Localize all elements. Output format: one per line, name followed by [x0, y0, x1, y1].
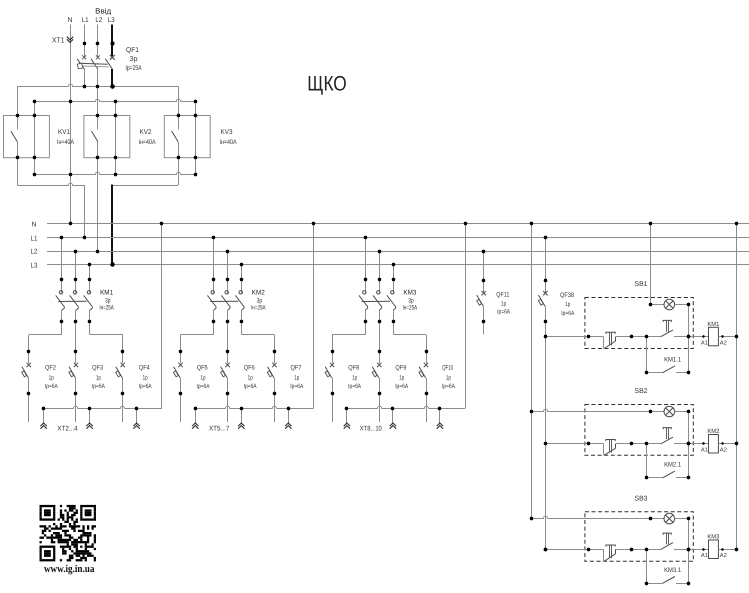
node SB3 feed: [544, 548, 547, 551]
node KM2 terminal stub 3: [287, 407, 290, 410]
node KM1 terminal stub 2: [88, 407, 91, 410]
wire SB1 between buttons: [616, 336, 661, 338]
label QF6: [244, 365, 255, 372]
label QF9 Ip=6A: [395, 383, 409, 390]
svg-text:N: N: [31, 221, 36, 228]
node QF6 top: [226, 350, 229, 353]
wire KM2 out1 to QF5: [181, 321, 214, 351]
label KM1.1: [664, 357, 681, 364]
wire SB2 right vertical: [688, 412, 690, 478]
node KM2 pole1 bottom: [212, 320, 215, 323]
label QF7: [291, 365, 302, 372]
svg-text:Iр=6А: Iр=6А: [290, 383, 304, 390]
label L2: [95, 17, 102, 24]
node pole2-header: [96, 85, 99, 88]
title ЩКО: [307, 72, 347, 95]
terminal chevron 1 of XТ8...10: [344, 423, 350, 429]
wire KM1 terminal stub 1: [43, 408, 45, 424]
label QF11 Ip=6A: [497, 308, 511, 315]
node QF2 top: [27, 350, 30, 353]
label Ввід (incoming feed): [95, 6, 112, 15]
label QF10: [442, 365, 453, 372]
breaker QF4: [116, 363, 125, 378]
node QF6 bottom: [226, 392, 229, 395]
label QF1: [126, 47, 139, 54]
wire KM1 terminal stub 2: [89, 408, 91, 424]
svg-text:KM2: KM2: [707, 428, 720, 435]
wire KM2 terminal stub 1: [195, 408, 197, 424]
node KM2 pole1 top: [212, 278, 215, 281]
wire coil KM3 return: [718, 549, 736, 551]
node QF38-L1: [544, 236, 547, 239]
breaker QF9: [372, 363, 381, 378]
node KM3 pole1 top: [364, 278, 367, 281]
svg-text:1р: 1р: [201, 375, 206, 382]
wire QF1 pole1 output: [84, 69, 86, 86]
contactor KM2 pole3 contact: [235, 282, 244, 320]
node SB3 line d: [687, 548, 690, 551]
wire KV1 right feed: [34, 102, 36, 116]
wire KM3 pole2 tap: [379, 251, 381, 280]
label QF6 1p: [248, 375, 253, 382]
node KM1 p2-L2: [74, 250, 77, 253]
node KV1R-header: [33, 100, 36, 103]
node SB2 line c: [645, 442, 648, 445]
wire QF3 lower: [75, 378, 77, 394]
wire QF5 output stub: [180, 394, 182, 422]
wire KV1 left feed: [17, 86, 19, 115]
node 174-KV1R: [33, 173, 36, 176]
svg-text:XT1: XT1: [52, 35, 65, 44]
wire KM3 terminal stub 3: [439, 408, 441, 424]
node QF4 bottom: [121, 392, 124, 395]
breaker QF11: [477, 291, 486, 306]
wire L1 drop to bus: [84, 185, 86, 238]
terminal chevron 2 of XТ5...7: [238, 423, 244, 429]
label QF2: [45, 365, 56, 372]
node KM3 pole2 top: [378, 278, 381, 281]
svg-text:А2: А2: [720, 552, 727, 559]
svg-text:QF3: QF3: [92, 365, 103, 372]
wire QF10 lower: [426, 378, 428, 394]
node SB1 line a: [587, 335, 590, 338]
wire KM1 out3 to QF4: [90, 321, 123, 351]
svg-text:1р: 1р: [248, 375, 253, 382]
node pole1-header: [83, 85, 86, 88]
node V1-N: [530, 222, 533, 225]
svg-text:KM3: KM3: [707, 534, 720, 541]
label QF38 Ip=6A: [561, 310, 575, 317]
label L3: [108, 17, 115, 24]
breaker QF1 (3-pole with tie bar): [77, 55, 115, 69]
node QF9 top: [378, 350, 381, 353]
wire SB3 lamp line: [532, 516, 664, 518]
terminal chevron 3 of XТ5...7: [285, 423, 291, 429]
svg-text:L1: L1: [31, 235, 38, 242]
svg-text:KV2: KV2: [140, 129, 152, 136]
wire KV2 right feed: [115, 102, 117, 116]
node KM1 p1-L1: [60, 236, 63, 239]
node L3 terminal: [111, 42, 115, 46]
svg-text:KV1: KV1: [58, 129, 70, 136]
label SB1: [635, 281, 648, 288]
contactor KM1 pole3 contact: [84, 282, 93, 320]
label SB2: [635, 388, 648, 395]
wire SB1 right vertical: [688, 305, 690, 373]
wire QF10 upper: [426, 351, 428, 363]
wire group KM1 neutral line: [44, 406, 162, 408]
svg-text:SB1: SB1: [635, 281, 648, 288]
node KM2.1 right mid: [687, 442, 690, 445]
svg-text:Iр=6А: Iр=6А: [348, 383, 362, 390]
svg-text:Iн=40А: Iн=40А: [220, 139, 237, 146]
node KM3 pole2 bottom: [378, 320, 381, 323]
wire SB2 lamp to right: [675, 411, 689, 413]
node SB1 line b: [630, 335, 633, 338]
wire KM1 out1 to QF2: [29, 321, 62, 351]
svg-text:L3: L3: [31, 262, 38, 269]
label KM3 3p: [408, 297, 414, 304]
node SB2 line b: [630, 442, 633, 445]
node SB2 lamp-V1: [530, 410, 533, 413]
svg-text:ЩКО: ЩКО: [307, 72, 347, 95]
wire KV3R drop: [195, 158, 197, 175]
wire KM3 pole3 tap: [393, 265, 395, 280]
terminal chevron 3 of XТ8...10: [437, 423, 443, 429]
node QF9 bottom: [378, 392, 381, 395]
label KM1 In=25A: [99, 304, 114, 311]
wire QF5 lower: [180, 378, 182, 394]
svg-text:KM2.1: KM2.1: [664, 462, 681, 469]
contactor KM1 tie bar: [58, 300, 86, 302]
node KM1.1 left: [645, 371, 648, 374]
svg-text:KV3: KV3: [221, 129, 233, 136]
svg-text:А2: А2: [720, 339, 727, 346]
wire KM1.1 left drop: [646, 337, 648, 373]
node QF10 top: [425, 350, 428, 353]
wire KV3L drop: [178, 158, 180, 185]
node KM3 terminal stub 3: [438, 407, 441, 410]
contact KM2.1 (self-hold): [646, 471, 689, 478]
node KM2 p3-L3: [240, 263, 243, 266]
breaker QF10: [419, 363, 428, 378]
button SB2 stop (NC): [604, 440, 616, 456]
wire KM2 out2 to QF6: [227, 321, 229, 351]
svg-text:1р: 1р: [565, 301, 570, 308]
node KM3 terminal stub 1: [345, 407, 348, 410]
node QF38 upper: [544, 279, 547, 282]
wire KM1 pole3 tap: [89, 265, 91, 280]
wire QF2 lower: [28, 378, 30, 394]
wire QF8 output stub: [332, 394, 334, 422]
svg-text:XТ2...4: XТ2...4: [57, 426, 78, 433]
wire N incoming vertical: [70, 25, 72, 224]
pin A2 of KM2: [720, 442, 727, 453]
node KV3R-header: [194, 100, 197, 103]
wire KM2 out3 to QF7: [242, 321, 275, 351]
node SB1 line d: [687, 335, 690, 338]
wire neutral lower header (y174.5): [35, 172, 196, 174]
node group KM2 riser-N: [312, 222, 315, 225]
wire KM3.1 left drop: [646, 549, 648, 583]
wire neutral header (y101.5): [35, 99, 196, 101]
svg-text:KM2: KM2: [252, 289, 265, 296]
node N-incoming-bus: [69, 222, 72, 225]
label KM2 In=25A: [251, 304, 266, 311]
label QF2 Ip=6A: [45, 383, 59, 390]
svg-text:QF9: QF9: [395, 365, 406, 372]
node KM1 return: [735, 335, 738, 338]
wire QF6 output stub: [227, 394, 229, 422]
wire L3 incoming (bold): [111, 25, 113, 57]
node KM3 pole1 bottom: [364, 320, 367, 323]
wire KM2 pole1 tap: [213, 238, 215, 280]
svg-text:QF6: QF6: [244, 365, 255, 372]
node return-N: [735, 222, 738, 225]
wire group KM3 neutral riser: [465, 224, 467, 408]
label QF5 1p: [201, 375, 206, 382]
node 174-N: [69, 173, 72, 176]
svg-text:QF38: QF38: [560, 292, 574, 299]
wire QF7 lower: [274, 378, 276, 394]
bus N: [31, 221, 749, 228]
node KM1 terminal stub 1: [42, 407, 45, 410]
button station SB3 (dashed box): [585, 512, 693, 562]
label QF4 Ip=6A: [139, 383, 153, 390]
label KM2: [252, 289, 265, 296]
label www.ig.in.ua: [44, 564, 95, 575]
svg-text:SB2: SB2: [635, 388, 648, 395]
pin A2 of KM1: [720, 335, 727, 346]
svg-text:Iр=6А: Iр=6А: [395, 383, 409, 390]
svg-text:L1: L1: [82, 17, 89, 24]
node L2 drop-bus: [96, 250, 99, 253]
wire coil KM1 lead: [693, 336, 708, 338]
svg-text:1р: 1р: [49, 375, 54, 382]
node group KM3 riser-N: [464, 222, 467, 225]
wire KM1 out2 to QF3: [75, 321, 77, 351]
wire KM1 pole2 tap: [75, 251, 77, 280]
wire QF11 lower: [483, 306, 485, 322]
svg-text:Iн=25А: Iн=25А: [403, 304, 418, 311]
wire QF1 pole3 output (bold): [111, 69, 113, 86]
bus L1: [31, 235, 749, 242]
wire SB3 button line in: [545, 549, 603, 551]
label QF4: [139, 365, 150, 372]
wire phase header (y86): [17, 84, 178, 86]
button SB1 stop (NC): [604, 332, 616, 348]
button SB3 start (NO): [661, 533, 673, 549]
label QF1 poles 3p: [130, 56, 138, 63]
node SB2 feed: [544, 442, 547, 445]
bus L3: [31, 262, 749, 269]
node KM2 p2-L2: [226, 250, 229, 253]
contactor KM3 tie bar: [362, 300, 390, 302]
wire group KM3 neutral line: [347, 406, 465, 408]
svg-text:QF11: QF11: [496, 291, 509, 298]
contactor KV1: [4, 114, 75, 159]
node KM3.1 right mid: [687, 548, 690, 551]
node KM3 p3-L3: [392, 263, 395, 266]
label QF2 1p: [49, 375, 54, 382]
node QF11-L2: [482, 250, 485, 253]
node QF7 top: [273, 350, 276, 353]
wire SB2 between buttons: [616, 443, 661, 445]
wire QF10 output stub: [426, 394, 428, 422]
contactor KM2 pole2 contact: [221, 282, 230, 320]
svg-text:N: N: [67, 17, 72, 24]
wire KM3 out1 to QF8: [332, 321, 365, 351]
node KM1 pole1 top: [60, 278, 63, 281]
lamp HL1: [664, 299, 675, 310]
node SB1 feed: [544, 335, 547, 338]
svg-text:QF7: QF7: [291, 365, 302, 372]
svg-text:L2: L2: [95, 17, 102, 24]
label KM2 3p: [257, 297, 263, 304]
wire QF6 upper: [227, 351, 229, 363]
lamp HL2: [664, 406, 675, 417]
svg-text:L2: L2: [31, 249, 38, 256]
node KM2 terminal stub 2: [240, 407, 243, 410]
node SB2 line d: [687, 442, 690, 445]
label XТ8...10: [360, 426, 382, 433]
wire KM2 pole3 tap: [241, 265, 243, 280]
svg-text:3р: 3р: [130, 56, 138, 63]
node QF11 upper: [482, 279, 485, 282]
svg-text:Ввід: Ввід: [95, 6, 112, 15]
pin A1 of KM2: [701, 442, 708, 453]
contactor KM3 pole1 contact: [359, 282, 368, 320]
svg-text:QF8: QF8: [348, 365, 359, 372]
svg-text:1р: 1р: [294, 375, 299, 382]
svg-text:Iр=6А: Iр=6А: [92, 383, 106, 390]
wire coil KM3 lead: [693, 549, 708, 551]
node KM3.1 left: [645, 582, 648, 585]
wire KV1L drop: [17, 158, 19, 185]
wire KM3 terminal stub 2: [392, 408, 394, 424]
wire KM3 out2 to QF9: [379, 321, 381, 351]
wire group KM2 neutral line: [195, 406, 313, 408]
node SB3 lamp right: [687, 517, 690, 520]
label KM3: [403, 289, 416, 296]
svg-text:1р: 1р: [143, 375, 148, 382]
svg-text:Iр=6А: Iр=6А: [197, 383, 211, 390]
wire SB2 after start: [674, 443, 693, 445]
wire QF1 pole2 output: [97, 69, 99, 86]
wire KM2.1 left drop: [646, 444, 648, 478]
node KM1 terminal stub 3: [135, 407, 138, 410]
svg-text:1р: 1р: [96, 375, 101, 382]
svg-text:Iр=6А: Iр=6А: [442, 383, 456, 390]
svg-text:www.ig.in.ua: www.ig.in.ua: [44, 564, 95, 575]
contactor KM2 tie bar: [210, 300, 238, 302]
contactor KM1 pole1 contact: [56, 282, 65, 320]
wire QF9 lower: [379, 378, 381, 394]
terminal chevron 3 of XТ2...4: [133, 423, 139, 429]
svg-text:QF1: QF1: [126, 47, 139, 54]
wire QF4 output stub: [122, 394, 124, 422]
coil KM1: [707, 321, 720, 346]
node KM1 pole2 top: [74, 278, 77, 281]
svg-text:1р: 1р: [501, 300, 506, 307]
node SB3 line c: [645, 548, 648, 551]
node KM1 pole1 bottom: [60, 320, 63, 323]
node 174-KV3R: [194, 173, 197, 176]
wire L2 incoming: [97, 25, 99, 57]
label QF6 Ip=6A: [244, 383, 258, 390]
terminal XT1: [52, 35, 73, 44]
svg-text:1р: 1р: [352, 375, 357, 382]
pin A2 of KM3: [720, 548, 727, 559]
svg-text:Iр=6А: Iр=6А: [497, 308, 511, 315]
svg-text:А1: А1: [701, 340, 708, 346]
wire group KM1 neutral riser: [161, 224, 163, 408]
svg-text:KM3.1: KM3.1: [664, 567, 681, 574]
breaker QF6: [221, 363, 230, 378]
node SB1 lamp feed: [649, 303, 652, 306]
label QF9 1p: [399, 375, 404, 382]
label SB3: [635, 496, 648, 503]
wire KM3 pole1 tap: [365, 238, 367, 280]
label XТ2...4: [57, 426, 78, 433]
svg-text:А1: А1: [701, 553, 708, 559]
wire QF2 upper: [28, 351, 30, 363]
svg-text:Iр=6А: Iр=6А: [244, 383, 258, 390]
label QF11: [496, 291, 509, 298]
pin A1 of KM3: [701, 548, 708, 559]
svg-text:KM1: KM1: [100, 289, 113, 296]
label QF9: [395, 365, 406, 372]
wire KM3 terminal stub 1: [346, 408, 348, 424]
label KM3 In=25A: [403, 304, 418, 311]
label KM2.1: [664, 462, 681, 469]
wire QF5 upper: [180, 351, 182, 363]
terminal chevron 1 of XТ5...7: [192, 423, 198, 429]
svg-text:KM1.1: KM1.1: [664, 357, 681, 364]
wire QF3 upper: [75, 351, 77, 363]
wire SB1 lamp to right: [675, 304, 689, 306]
svg-text:Iн=25А: Iн=25А: [99, 304, 114, 311]
label QF8 Ip=6A: [348, 383, 362, 390]
node QF10 bottom: [425, 392, 428, 395]
label QF7 1p: [294, 375, 299, 382]
wire L1 link (y185): [17, 183, 84, 185]
wire SB3 after start: [674, 549, 693, 551]
node KM2 p1-L1: [212, 236, 215, 239]
node KM2.1 left top: [0, 0, 1, 1]
node KM3 pole3 bottom: [392, 320, 395, 323]
node SB2 lamp mid: [649, 410, 652, 413]
bus L2: [31, 249, 749, 256]
wire KM1 terminal stub 3: [136, 408, 138, 424]
wire QF9 output stub: [379, 394, 381, 422]
coil KM3: [707, 534, 720, 559]
wire KV3 left feed: [178, 86, 180, 115]
node SB3 lamp-V1: [530, 517, 533, 520]
button SB2 start (NO): [661, 428, 673, 444]
wire SB1 lamp feed from N: [650, 224, 652, 305]
wire QF7 output stub: [274, 394, 276, 422]
svg-text:3р: 3р: [408, 297, 414, 304]
node lampfeed-N: [649, 222, 652, 225]
wire SB1 lamp line: [650, 304, 664, 306]
node L1 drop-bus: [83, 236, 86, 239]
node KM3 terminal stub 2: [391, 407, 394, 410]
svg-text:А2: А2: [720, 447, 727, 454]
terminal chevron 2 of XТ2...4: [86, 423, 92, 429]
wire QF38 output (control feed V2): [545, 306, 547, 549]
coil KM2: [707, 428, 720, 453]
